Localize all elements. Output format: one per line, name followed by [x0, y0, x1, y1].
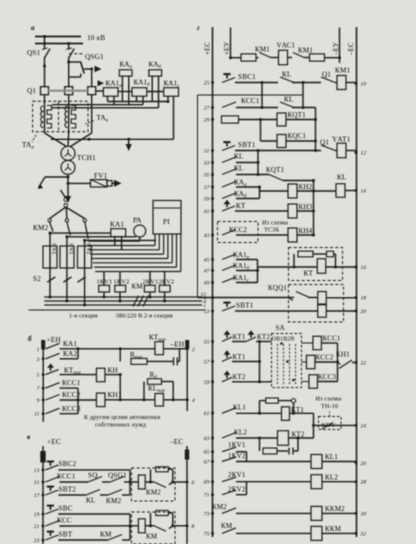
wire rung31 b	[335, 150, 337, 152]
bus 380V line b	[44, 300, 202, 302]
wire rung31	[235, 150, 321, 152]
rail -EH right	[186, 341, 188, 411]
comb return wire	[51, 138, 174, 140]
wire rung61	[258, 412, 261, 415]
svg-text:КТ: КТ	[304, 270, 314, 278]
svg-text:71: 71	[204, 493, 210, 499]
terminal -EY	[339, 28, 341, 64]
wire TCH1 secondary down	[67, 174, 69, 196]
svg-text:б: б	[28, 335, 32, 343]
node tap2	[65, 235, 68, 238]
button SBC1	[222, 78, 235, 83]
node bus1-phaseA	[43, 35, 46, 38]
svg-text:КН1: КН1	[108, 391, 122, 399]
wire KQT1 out	[286, 119, 316, 121]
coil KM1	[337, 76, 346, 90]
wire PA leg to bundle	[139, 237, 141, 241]
timer coil KT2	[278, 431, 289, 446]
svg-text:FV1: FV1	[94, 172, 108, 180]
meter PI box	[153, 201, 181, 235]
contact KM2 rung73	[222, 508, 236, 514]
node phase-bus b	[65, 300, 68, 303]
wire rung67	[236, 461, 311, 463]
wire rows7-11 link	[77, 388, 79, 414]
svg-text:КН: КН	[108, 367, 118, 375]
svg-text:КСС2: КСС2	[229, 226, 247, 234]
wire rung35 out	[283, 180, 314, 182]
coil KH4	[288, 228, 297, 242]
wire TCH1 to KM2	[61, 190, 66, 198]
wire KA1a-KA1b link	[118, 91, 132, 93]
wire bundle PI fan-out	[154, 234, 156, 246]
bus 380V line c	[44, 304, 202, 306]
wire row11	[60, 413, 78, 415]
coil YAT1	[337, 143, 346, 158]
svg-text:1КV1: 1КV1	[228, 441, 246, 449]
contactor coil KM2	[138, 475, 145, 489]
contact KM rung75	[222, 528, 236, 534]
wire KKM2 to rail	[322, 512, 356, 514]
contact KAb rung39	[222, 193, 236, 199]
button KT2 rung59	[222, 377, 232, 382]
svg-text:31: 31	[203, 149, 210, 155]
svg-text:КL: КL	[337, 174, 347, 182]
svg-text:КМ1: КМ1	[255, 46, 270, 54]
coil KKM2	[311, 506, 322, 520]
disconnector QS1 pole A	[45, 49, 51, 59]
svg-text:SBТ2: SBТ2	[59, 486, 77, 494]
relay 2KV1 box	[144, 285, 155, 292]
resistor Rd branch	[143, 382, 145, 400]
svg-text:65: 65	[204, 450, 210, 456]
wire KTpor to rail	[164, 348, 188, 350]
svg-text:КМ: КМ	[221, 522, 233, 530]
wire rung33	[236, 162, 258, 164]
svg-text:ТА-1: ТА-1	[52, 243, 58, 255]
resistor EY left	[241, 54, 256, 61]
svg-text:собственных нужд: собственных нужд	[95, 422, 146, 429]
svg-text:КСС1: КСС1	[57, 473, 76, 481]
wire rung51 out	[308, 297, 318, 299]
svg-text:2КV1: 2КV1	[228, 471, 246, 479]
contact Q1 rung25	[321, 77, 335, 83]
wire KL2 to rail	[322, 481, 356, 483]
svg-text:КL1: КL1	[233, 404, 246, 412]
svg-text:SQ: SQ	[88, 472, 98, 480]
coil KL right	[336, 184, 345, 198]
svg-text:30: 30	[360, 511, 367, 517]
wire SA to KCC1	[302, 342, 314, 344]
svg-text:28: 28	[361, 480, 367, 486]
button SBT row23	[45, 535, 58, 540]
svg-text:5: 5	[37, 373, 40, 379]
rail -EC main	[356, 27, 358, 537]
contact KBV	[322, 423, 333, 430]
wire row23-21 link	[129, 526, 131, 540]
contact 1KV2 rung67	[222, 457, 236, 462]
svg-text:КL1: КL1	[325, 453, 338, 461]
wire rung51	[198, 297, 295, 299]
svg-text:1-я секция: 1-я секция	[69, 314, 98, 320]
wire drop to 1KV1	[103, 272, 105, 286]
resistor EY right	[310, 54, 325, 61]
timer KT RC branch	[293, 254, 295, 267]
svg-text:+ЕН: +ЕН	[47, 336, 61, 344]
svg-text:КL: КL	[284, 96, 294, 104]
svg-text:в: в	[27, 433, 30, 441]
button SBC row19	[45, 509, 58, 514]
contact QSG1 row15	[110, 477, 124, 483]
wire tap3 to PI	[85, 239, 156, 241]
wire tap2 to PA	[67, 236, 136, 238]
svg-text:S2: S2	[33, 275, 41, 283]
contact KL2 rung63	[222, 433, 236, 439]
coil KH3	[288, 204, 297, 218]
relay coil KH1	[96, 393, 105, 407]
wire phase A mid	[44, 57, 46, 87]
wire rung47	[236, 270, 258, 272]
svg-text:53: 53	[204, 309, 210, 315]
svg-text:23: 23	[34, 538, 40, 544]
svg-text:2-я секция: 2-я секция	[144, 314, 173, 320]
economy resistor KM	[150, 513, 152, 526]
svg-text:SBТ: SBТ	[59, 531, 73, 539]
wire KH2 out	[297, 190, 314, 192]
node phase B	[67, 61, 70, 64]
svg-text:КН3: КН3	[299, 203, 313, 211]
wire KT merge vertical	[259, 342, 261, 382]
svg-text:КТ1: КТ1	[233, 353, 246, 361]
svg-text:67: 67	[204, 460, 210, 466]
svg-text:29: 29	[204, 118, 210, 124]
button KT rung41	[222, 206, 235, 211]
contact KM2 row17	[108, 490, 122, 496]
svg-text:380/220 В: 380/220 В	[116, 314, 143, 320]
wire rung35	[236, 174, 269, 176]
svg-text:КТ: КТ	[236, 202, 246, 210]
wire rung53 out	[326, 310, 356, 312]
wire phase A through TA	[44, 95, 46, 133]
contact KL rung27	[280, 102, 294, 108]
economy contact KM	[154, 526, 166, 532]
button SBT1 rung53	[222, 306, 235, 311]
wire rung25 b	[292, 82, 321, 84]
node tap3	[83, 239, 86, 242]
resistor rung29	[222, 116, 239, 123]
svg-text:2КV2: 2КV2	[159, 279, 175, 286]
wire KT1 out	[290, 412, 314, 414]
terminal +EC local	[41, 452, 45, 463]
wire KA1b-KA1c link	[147, 91, 164, 93]
contact KQQ1	[296, 292, 310, 298]
wire EY 5	[325, 57, 340, 59]
svg-text:КСС2: КСС2	[316, 354, 334, 362]
svg-text:SBC2: SBC2	[59, 460, 77, 468]
section separator line	[29, 309, 206, 311]
wire phase B upper	[68, 44, 70, 50]
svg-text:2: 2	[192, 347, 195, 353]
svg-text:20: 20	[361, 309, 367, 315]
wire KAb right leg	[158, 76, 160, 108]
arrow down to loads	[65, 196, 71, 203]
svg-text:ККМ: ККМ	[325, 525, 342, 533]
svg-text:КL: КL	[86, 497, 96, 505]
svg-text:35: 35	[203, 173, 210, 179]
arrow down from comb return	[128, 139, 130, 144]
button KT row5	[46, 370, 59, 375]
svg-text:39: 39	[203, 197, 210, 203]
contact KL row17	[86, 490, 100, 496]
svg-text:47: 47	[204, 269, 210, 275]
wire row21	[59, 525, 138, 527]
wire row19	[58, 513, 130, 515]
wire EY 3	[288, 57, 293, 59]
svg-text:КСС3: КСС3	[62, 405, 81, 413]
wire phase A upper	[44, 37, 46, 50]
contact KAa rung37	[222, 182, 236, 188]
svg-text:1: 1	[37, 347, 40, 353]
wire KQC1 branch	[260, 120, 262, 142]
wire KH4 out	[297, 234, 314, 236]
node bus2-phaseB	[67, 42, 70, 45]
svg-text:РI: РI	[163, 218, 170, 226]
svg-text:КМ: КМ	[146, 533, 158, 541]
svg-text:КН2: КН2	[299, 183, 313, 191]
svg-text:КН1: КН1	[336, 351, 350, 359]
svg-text:25: 25	[204, 81, 210, 87]
wire KA1a legs	[107, 96, 109, 101]
relay coil KTpor	[155, 342, 164, 355]
wire rung73	[236, 512, 311, 514]
svg-text:КН4: КН4	[299, 227, 313, 235]
svg-text:6: 6	[192, 480, 195, 486]
timer coil KT1	[282, 407, 290, 421]
wire SA to KCC3	[302, 381, 310, 383]
svg-text:49: 49	[204, 281, 210, 287]
button SBT1 rung31	[222, 146, 235, 151]
node bus2-phaseA	[43, 42, 46, 45]
wire rung63	[236, 437, 278, 439]
svg-text:КТ1: КТ1	[233, 333, 246, 341]
svg-text:КL: КL	[234, 153, 244, 161]
button SBC2 row13	[45, 465, 58, 470]
svg-text:КМ2: КМ2	[106, 497, 122, 505]
wire row23	[58, 539, 108, 541]
wire KCC1 out	[322, 342, 338, 344]
wire KH1 out	[105, 399, 155, 401]
svg-text:1КV1: 1КV1	[97, 279, 113, 286]
svg-text:КМ: КМ	[100, 531, 112, 539]
arrowhead left feeder	[38, 184, 43, 189]
contact KM1 on EY right	[293, 53, 304, 58]
svg-text:КМ2: КМ2	[33, 224, 49, 232]
breaker Q1 pole C	[88, 87, 96, 95]
wire to rail 24	[313, 413, 315, 425]
svg-text:2КV2: 2КV2	[228, 485, 246, 493]
svg-text:24: 24	[361, 423, 367, 429]
wire KAb left leg	[151, 76, 153, 101]
contact 1KV1 rung65	[222, 447, 236, 452]
contact KCC1 row7	[46, 383, 60, 389]
wire anti-pump vertical	[315, 108, 317, 151]
svg-text:17: 17	[34, 493, 40, 499]
svg-text:КМ2: КМ2	[146, 489, 161, 497]
contact KL rung33	[222, 157, 236, 163]
svg-text:12: 12	[361, 151, 367, 157]
terminal -EH	[186, 341, 189, 349]
coil KQQ1 upper	[318, 292, 327, 305]
svg-text:45: 45	[204, 258, 210, 264]
svg-text:КL: КL	[234, 165, 244, 173]
svg-text:ТСЗБ: ТСЗБ	[264, 228, 279, 234]
wire row7	[60, 387, 78, 389]
bus 10kV line 2	[35, 43, 83, 45]
timer coil KT	[317, 259, 326, 274]
svg-text:Из схемы: Из схемы	[316, 397, 342, 403]
contactor KM2 pole contacts	[48, 219, 51, 222]
contact KM1 on EY left	[260, 53, 271, 58]
coil KCC2 g	[306, 355, 315, 369]
dashed box KCC2	[218, 222, 259, 243]
svg-text:–ЕН: –ЕН	[170, 341, 185, 349]
svg-text:SBТ1: SBТ1	[236, 302, 254, 310]
wire to FV1	[68, 182, 91, 184]
wire row5	[60, 374, 97, 376]
svg-text:К другим целям автоматики: К другим целям автоматики	[84, 415, 161, 421]
wire phase1 lower	[49, 232, 51, 298]
contactor coil KM	[138, 519, 145, 533]
svg-text:2КV1: 2КV1	[143, 279, 159, 286]
contact KCC row21	[45, 521, 59, 527]
svg-text:63: 63	[204, 436, 210, 442]
timer KT2 RC branch	[259, 438, 261, 451]
wire phase B mid	[68, 57, 70, 87]
button KT2 rung55	[246, 337, 256, 342]
svg-text:ТА-2: ТА-2	[87, 243, 93, 255]
wire KA1b legs	[136, 96, 138, 101]
wire phase2 lower	[66, 235, 68, 301]
contactor KM blades on bus	[133, 296, 139, 307]
wire KM2 to rail	[145, 481, 154, 483]
coil KQT1	[277, 113, 286, 126]
coil KKM	[311, 526, 322, 540]
svg-text:SBC1: SBC1	[238, 73, 256, 81]
relay coil KLpor	[155, 394, 164, 407]
svg-text:41: 41	[204, 209, 210, 215]
svg-text:КСС: КСС	[57, 517, 72, 525]
contact 2KV1 rung69	[222, 477, 236, 482]
svg-text:КМ2: КМ2	[212, 503, 227, 511]
svg-text:КТ2: КТ2	[233, 373, 246, 381]
resistor Rpor branch	[119, 349, 121, 362]
wire rung53	[235, 310, 318, 312]
protection group frame	[197, 95, 199, 298]
wire 2KV merge	[246, 482, 248, 495]
node TCH1 secondary	[67, 176, 70, 179]
svg-text:61: 61	[204, 411, 210, 417]
relay KA1c box	[164, 88, 179, 97]
coil KL2	[311, 475, 322, 489]
svg-text:г: г	[197, 24, 200, 32]
node tap1	[49, 232, 52, 235]
svg-text:3: 3	[36, 357, 40, 363]
svg-text:15: 15	[34, 480, 40, 486]
svg-text:–ЕС: –ЕС	[348, 42, 355, 56]
wire KL-KL link	[302, 83, 304, 108]
svg-text:SBC: SBC	[59, 505, 73, 513]
breaker Q1 linkage	[49, 90, 88, 92]
wire KCC2 out	[315, 361, 338, 363]
contact 2KV2 rung71	[222, 490, 236, 495]
wire to left feeder	[45, 176, 68, 178]
svg-text:КL2: КL2	[325, 474, 338, 482]
wire row19-21 link	[129, 514, 131, 526]
svg-text:73: 73	[204, 511, 210, 517]
selector SA contact columns	[277, 344, 279, 385]
svg-text:КТ2: КТ2	[257, 333, 270, 341]
svg-text:КСС1: КСС1	[62, 379, 81, 387]
svg-text:QSG1: QSG1	[108, 472, 127, 480]
svg-text:КМ1: КМ1	[335, 67, 351, 75]
earthing switch QSG1 blade	[81, 62, 85, 74]
svg-text:10: 10	[361, 82, 367, 88]
svg-text:59: 59	[204, 380, 210, 386]
bus 10kV line 1	[35, 36, 81, 38]
svg-text:8: 8	[192, 524, 195, 530]
svg-text:9: 9	[37, 398, 40, 404]
wire rung57	[232, 361, 260, 363]
wire rung55 b	[256, 341, 272, 343]
svg-text:16: 16	[361, 265, 367, 271]
switch S2 blades	[47, 277, 55, 282]
wire Q1 to KA1a box	[96, 90, 104, 92]
svg-text:Q1: Q1	[320, 139, 329, 147]
contact Q1 rung31	[321, 145, 335, 151]
node phase-bus c	[83, 304, 86, 307]
svg-text:Q1: Q1	[322, 71, 331, 79]
wire SBC1-KCC1 link	[261, 83, 263, 108]
wire rung29	[239, 119, 278, 121]
terminal +EY	[230, 28, 232, 58]
ammeter PA circle	[134, 225, 146, 237]
wire KL1 to rail	[322, 461, 356, 463]
contact KL1 rung61	[222, 408, 236, 414]
svg-text:ТН-10: ТН-10	[321, 404, 338, 410]
wire KL coil to rail	[345, 190, 356, 192]
svg-text:1КV2: 1КV2	[228, 452, 246, 460]
wire row3	[60, 358, 78, 360]
wire KA1 merge vertical	[257, 260, 259, 283]
wire KCC merge vertical	[337, 343, 339, 382]
svg-text:26: 26	[361, 461, 367, 467]
node phase-bus a	[49, 296, 52, 299]
svg-text:РА: РА	[133, 217, 142, 225]
svg-text:а: а	[31, 24, 35, 32]
svg-text:КА1: КА1	[110, 221, 124, 229]
coil KL1	[311, 455, 322, 469]
wire 1KV merge	[246, 452, 248, 462]
contact KL rung35	[222, 169, 236, 175]
wire rung39	[236, 198, 260, 200]
relay 2KV2 box	[159, 285, 170, 292]
wire phase3 lower	[84, 239, 86, 305]
earthing switch QSG1 dashed link	[69, 53, 83, 55]
current transformer enclosure dashed box	[33, 101, 88, 132]
svg-text:55: 55	[204, 340, 210, 346]
svg-text:КQС1: КQС1	[288, 132, 307, 140]
svg-text:КМ1: КМ1	[298, 47, 313, 55]
relay 1KV1 box	[99, 285, 110, 292]
